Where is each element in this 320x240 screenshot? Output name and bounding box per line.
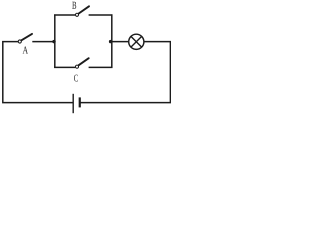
battery long plate	[72, 94, 74, 113]
wire parallel left bar	[54, 14, 56, 68]
wire branch C right	[89, 66, 113, 68]
wire branch C left	[54, 66, 75, 68]
node right junction dot	[109, 40, 112, 43]
wire parallel right bar	[111, 14, 113, 68]
battery	[73, 94, 80, 113]
label C	[74, 75, 78, 82]
battery short plate	[79, 97, 81, 107]
switch A	[18, 34, 32, 43]
wire switch A to parallel left node	[32, 41, 55, 43]
wire parallel right node to lamp	[112, 41, 128, 43]
wire branch B right	[89, 14, 113, 16]
switch B	[75, 6, 89, 16]
label A	[23, 47, 28, 54]
node left junction dot	[52, 40, 55, 43]
switch C	[75, 58, 88, 68]
wire branch B left	[54, 14, 75, 16]
wire bottom right + right vertical	[80, 42, 170, 103]
wire left vertical + bottom left	[3, 42, 73, 103]
lamp	[129, 34, 144, 49]
label B	[72, 2, 76, 9]
